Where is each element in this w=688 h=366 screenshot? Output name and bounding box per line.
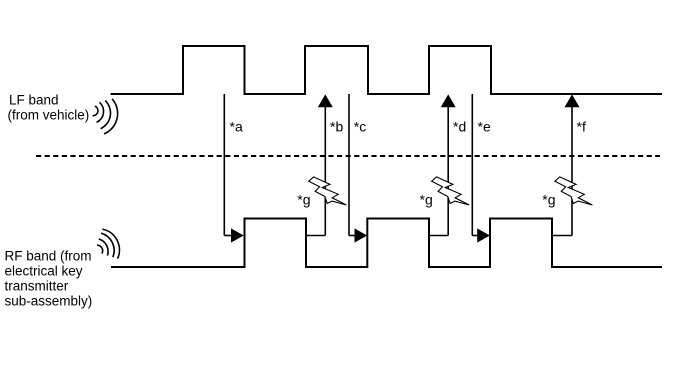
- RF band pulse waveform: [111, 219, 662, 268]
- svg-text:electrical key: electrical key: [5, 264, 83, 279]
- arrow b: RF response up to LF band: [318, 94, 333, 235]
- label: LF band (from vehicle): [8, 93, 90, 123]
- svg-text:RF band (from: RF band (from: [5, 249, 92, 264]
- wire: RF pulse 1 falling edge to arrow b: [306, 235, 325, 237]
- arrow f: RF response up to LF band: [565, 94, 580, 235]
- svg-text:*d: *d: [453, 119, 466, 135]
- svg-text:*g: *g: [420, 191, 433, 207]
- svg-text:*g: *g: [542, 191, 555, 207]
- interference bolt on arrow d: [432, 177, 470, 205]
- svg-text:*a: *a: [230, 119, 243, 135]
- label: RF band (from electrical key transmitter sub-assembly): [5, 249, 93, 309]
- arrow e: LF command down to RF pulse 3 rising edge: [472, 94, 490, 243]
- svg-text:*b: *b: [330, 119, 343, 135]
- arrow a: LF command down to RF pulse 1 rising edge: [224, 94, 243, 243]
- svg-text:(from vehicle): (from vehicle): [8, 108, 90, 123]
- svg-text:*g: *g: [297, 191, 310, 207]
- arrow d: RF response up to LF band: [441, 94, 456, 235]
- svg-text:sub-assembly): sub-assembly): [5, 294, 93, 309]
- LF band pulse waveform: [111, 46, 663, 94]
- arrow c: LF command down to RF pulse 2 rising edge: [349, 94, 367, 243]
- svg-text:transmitter: transmitter: [5, 279, 69, 294]
- svg-text:*e: *e: [478, 119, 491, 135]
- svg-text:*c: *c: [354, 119, 366, 135]
- interference bolt on arrow f: [555, 177, 593, 205]
- LF transmit waves icon: [93, 99, 118, 134]
- svg-text:LF band: LF band: [9, 93, 59, 108]
- wire: RF pulse 2 falling edge to arrow d: [429, 235, 448, 237]
- wire: RF pulse 3 falling edge to arrow f: [552, 235, 572, 237]
- svg-text:*f: *f: [577, 119, 586, 135]
- LF/RF boundary dashed line: [36, 155, 660, 157]
- interference bolt on arrow b: [309, 177, 347, 205]
- RF transmit waves icon: [97, 229, 119, 259]
